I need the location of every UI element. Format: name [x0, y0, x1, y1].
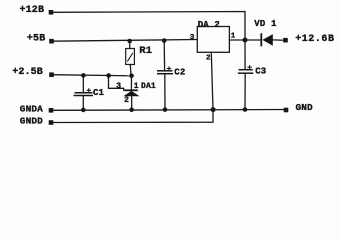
svg-text:C3: C3: [255, 66, 266, 76]
svg-text:3: 3: [190, 34, 195, 42]
svg-text:+5B: +5B: [27, 34, 45, 45]
svg-text:DA1: DA1: [141, 82, 156, 91]
svg-text:1: 1: [231, 33, 236, 41]
svg-text:3: 3: [116, 82, 121, 91]
svg-text:VD 1: VD 1: [254, 19, 277, 29]
svg-text:C2: C2: [174, 67, 185, 77]
svg-text:GNDA: GNDA: [20, 103, 43, 114]
svg-text:+2.5B: +2.5B: [12, 67, 43, 78]
svg-text:2: 2: [206, 54, 211, 62]
svg-text:+12.6B: +12.6B: [295, 34, 334, 45]
svg-text:GNDD: GNDD: [20, 116, 43, 127]
svg-text:2: 2: [124, 96, 129, 105]
svg-text:1: 1: [134, 82, 139, 91]
svg-text:GND: GND: [296, 102, 314, 113]
svg-text:+12B: +12B: [20, 5, 45, 16]
svg-text:DA 2: DA 2: [198, 20, 220, 30]
svg-text:R1: R1: [139, 45, 152, 57]
svg-text:C1: C1: [93, 88, 105, 98]
